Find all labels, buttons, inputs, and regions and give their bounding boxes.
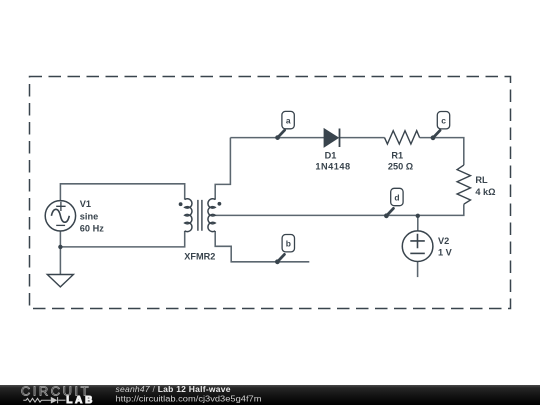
svg-text:1N4148: 1N4148 — [315, 162, 350, 172]
svg-text:LAB: LAB — [66, 395, 95, 405]
svg-text:http://circuitlab.com/cj3vd3e5: http://circuitlab.com/cj3vd3e5g4f7m — [116, 395, 262, 404]
svg-text:XFMR2: XFMR2 — [184, 252, 215, 262]
svg-text:4 kΩ: 4 kΩ — [475, 187, 495, 197]
svg-text:R1: R1 — [391, 151, 403, 161]
svg-text:RL: RL — [475, 175, 488, 185]
svg-text:V1: V1 — [80, 199, 91, 209]
svg-text:sine: sine — [80, 211, 98, 221]
svg-text:V2: V2 — [438, 236, 449, 246]
svg-text:a: a — [286, 116, 291, 126]
svg-text:60 Hz: 60 Hz — [80, 224, 104, 234]
svg-text:c: c — [441, 116, 446, 126]
svg-text:1 V: 1 V — [438, 248, 453, 258]
svg-text:seanh47 / Lab 12 Half-wave: seanh47 / Lab 12 Half-wave — [116, 384, 231, 394]
svg-text:d: d — [394, 192, 399, 202]
svg-text:250 Ω: 250 Ω — [388, 162, 413, 172]
svg-text:D1: D1 — [325, 151, 337, 161]
svg-text:b: b — [286, 239, 291, 249]
